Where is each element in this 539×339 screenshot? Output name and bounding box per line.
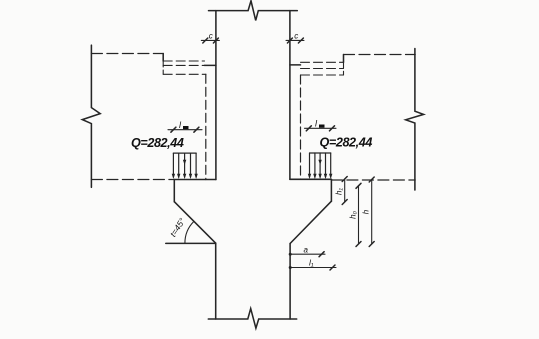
label l sup right: [315, 119, 325, 129]
right beam ledge solid stub: [290, 64, 301, 66]
left beam notch dashed row 2: [163, 64, 204, 66]
right corbel diagonal: [290, 201, 331, 243]
dimension h1: [342, 177, 347, 205]
left corbel diagonal: [174, 202, 215, 244]
right beam end face dashed: [300, 75, 302, 179]
right corbel top: [290, 178, 332, 180]
left beam notch vertical dashed connector: [162, 61, 164, 74]
right beam top dashed line: [344, 54, 416, 56]
dimension a: [289, 252, 325, 257]
svg-text:h₁: h₁: [335, 188, 344, 195]
svg-text:l: l: [315, 119, 318, 129]
left beam notch dashed row 1: [163, 60, 204, 62]
left corbel outer edge: [173, 180, 175, 202]
dimension l1: [289, 265, 336, 270]
right beam notch step: [343, 55, 345, 63]
left load box: [173, 153, 196, 177]
lower column left edge: [215, 243, 217, 319]
svg-text:c: c: [209, 32, 213, 41]
right corbel outer edge: [330, 179, 332, 201]
right beam notch dashed row 1: [301, 61, 344, 63]
upper column left edge: [215, 11, 217, 180]
left corbel top: [174, 179, 216, 181]
right corbel top dashed extension: [331, 179, 415, 181]
dimension c left: [201, 38, 219, 43]
right beam notch dashed row 3: [301, 74, 344, 76]
svg-text:l: l: [179, 120, 182, 130]
angle arc: [185, 221, 194, 243]
left beam outer edge with break: [82, 45, 100, 187]
svg-text:l₁: l₁: [309, 258, 314, 268]
svg-text:c: c: [294, 32, 298, 41]
dimension h0: [356, 183, 361, 246]
column bottom break line: [208, 309, 296, 329]
svg-text:h₀: h₀: [349, 210, 358, 218]
right load box: [310, 153, 331, 177]
left beam bottom dashed line: [91, 179, 174, 181]
right beam outer edge with break: [406, 49, 424, 191]
right load arrowheads: [308, 160, 333, 179]
svg-text:Q=282,44: Q=282,44: [320, 136, 373, 150]
dimension l sup left: [168, 127, 202, 132]
left beam end face dashed: [205, 74, 207, 179]
right beam notch vertical dashed connector: [343, 62, 345, 75]
left beam notch step: [162, 54, 164, 62]
svg-text:Q=282,44: Q=282,44: [131, 136, 184, 150]
svg-text:h: h: [362, 209, 371, 214]
right beam notch dashed row 2: [301, 68, 344, 70]
angle reference line: [166, 242, 216, 244]
svg-text:a: a: [304, 246, 309, 255]
label l sup left: [179, 120, 189, 130]
dimension l sup right: [305, 126, 337, 131]
lower column right edge: [289, 244, 291, 320]
left beam top dashed line: [91, 53, 163, 55]
svg-text:t=45°: t=45°: [168, 216, 188, 239]
left load arrowheads: [172, 160, 198, 179]
column top break line: [209, 1, 298, 21]
left beam ledge solid stub: [205, 64, 216, 66]
upper column right edge: [289, 11, 291, 180]
dimension c right: [286, 38, 304, 43]
left beam notch dashed row 3: [163, 73, 206, 75]
dimension h: [369, 177, 374, 247]
